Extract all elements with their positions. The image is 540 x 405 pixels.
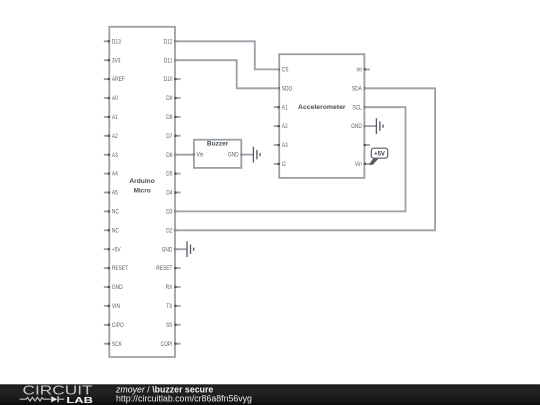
U1 pin D3 (right, connected) xyxy=(174,210,176,212)
U1 pin A2 (left) xyxy=(104,133,118,140)
svg-text:D8: D8 xyxy=(166,115,172,122)
svg-text:Vin: Vin xyxy=(355,162,362,169)
U2 pin SCL (right, connected) xyxy=(352,105,365,112)
U2 pin Vin (right) xyxy=(355,162,370,169)
U1 pin D9 (right) xyxy=(166,96,180,103)
svg-text:Int: Int xyxy=(356,67,362,74)
ground symbol (accelerometer GND) xyxy=(376,118,383,134)
U2 pin I2 (left) xyxy=(274,162,286,169)
svg-text:NC: NC xyxy=(112,228,119,235)
logo resistor zigzag and diode xyxy=(20,396,65,402)
svg-text:RESET: RESET xyxy=(112,266,129,273)
svg-text:I2: I2 xyxy=(282,162,286,169)
svg-text:SCK: SCK xyxy=(112,341,122,348)
svg-text:D12: D12 xyxy=(164,39,173,46)
U1 pin label D3 xyxy=(166,209,172,216)
U1 pin A0 (left) xyxy=(104,96,118,103)
svg-text:SS: SS xyxy=(166,322,173,329)
U1 pin RX (right) xyxy=(166,285,181,292)
U1 pin A1 (left) xyxy=(104,115,118,122)
U1 pin 3V3 (left) xyxy=(104,58,121,65)
svg-text:D5: D5 xyxy=(166,171,172,178)
svg-text:GND: GND xyxy=(112,285,123,292)
U1 pin D11 (right, connected) xyxy=(174,59,176,61)
IC U1 Arduino Micro body xyxy=(109,27,175,357)
svg-text:A5: A5 xyxy=(112,190,118,197)
svg-text:D6: D6 xyxy=(166,152,172,159)
U1 pin D4 (right) xyxy=(166,190,180,197)
footer author line "zmoyer / \buzzer secure" xyxy=(115,385,213,395)
U1 pin GND (right, connected) xyxy=(174,248,176,250)
ground symbol (buzzer) xyxy=(253,147,260,163)
svg-text:+5V: +5V xyxy=(112,247,121,254)
CircuitLab logo text CIRCUIT xyxy=(23,383,93,398)
svg-text:D11: D11 xyxy=(164,58,172,65)
svg-text:D2: D2 xyxy=(166,228,172,235)
svg-text:RX: RX xyxy=(166,285,173,292)
svg-text:CIPO: CIPO xyxy=(112,322,124,329)
U1 pin A4 (left) xyxy=(104,171,118,178)
wire U2.SCL to U1.D3 xyxy=(175,107,406,211)
wire BZ1.GND to ground xyxy=(241,154,253,156)
U1 pin D5 (right) xyxy=(166,171,180,178)
U1 pin D7 (right) xyxy=(166,133,180,140)
svg-text:TX: TX xyxy=(166,304,172,311)
svg-text:http://circuitlab.com/cr86a8fn: http://circuitlab.com/cr86a8fn56vyg xyxy=(116,393,252,403)
U1 pin CIPO (left) xyxy=(104,322,124,329)
ground symbol (arduino GND) xyxy=(187,241,194,257)
U1 pin SCK (left) xyxy=(104,341,122,348)
U1 pin GND (left) xyxy=(104,285,123,292)
svg-text:SCL: SCL xyxy=(352,105,361,112)
U1 pin label D11 xyxy=(164,58,172,65)
svg-text:D4: D4 xyxy=(166,190,172,197)
U1 pin NC (left) xyxy=(104,228,119,235)
svg-text:A1: A1 xyxy=(282,105,288,112)
U2 pin A2 (left) xyxy=(274,124,288,131)
U2 pin (unlabeled) (right) xyxy=(364,144,370,146)
svg-text:SDA: SDA xyxy=(352,86,362,93)
U1 pin VIN (left) xyxy=(104,304,120,311)
BZ1 pin Vin (left, connected) xyxy=(192,152,203,159)
U1 pin RESET (right) xyxy=(156,266,180,273)
U1 pin label D6 xyxy=(166,152,172,159)
svg-text:D10: D10 xyxy=(164,77,173,84)
U1 pin label D2 xyxy=(166,228,172,235)
U1 pin D12 (right, connected) xyxy=(174,40,176,42)
svg-text:CS: CS xyxy=(282,67,289,74)
U1 pin D6 (right, connected) xyxy=(174,154,176,156)
footer black bar xyxy=(0,384,540,405)
U1 pin NC (left) xyxy=(104,209,119,216)
svg-text:Vin: Vin xyxy=(197,152,204,159)
svg-text:Arduino: Arduino xyxy=(129,178,154,185)
svg-text:NC: NC xyxy=(112,209,119,216)
U2 pin SDA (right, connected) xyxy=(352,86,366,93)
U1 pin A5 (left) xyxy=(104,190,118,197)
svg-text:Accelerometer: Accelerometer xyxy=(298,104,346,111)
svg-text:A3: A3 xyxy=(112,152,118,159)
svg-text:D7: D7 xyxy=(166,133,172,140)
U1 pin D8 (right) xyxy=(166,115,180,122)
component BZ1 Buzzer body xyxy=(194,140,241,168)
svg-text:RESET: RESET xyxy=(156,266,173,273)
U1 pin TX (right) xyxy=(166,304,180,311)
U2 pin CS (left, connected) xyxy=(278,67,289,74)
svg-text:D9: D9 xyxy=(166,96,172,103)
U1 pin A3 (left) xyxy=(104,152,118,159)
svg-text:D13: D13 xyxy=(112,39,121,46)
U1 pin label GND xyxy=(162,247,173,254)
IC U2 Accelerometer body xyxy=(279,54,364,178)
+5V net flag at U2.Vin xyxy=(370,148,388,164)
svg-text:GND: GND xyxy=(351,124,362,131)
svg-text:A2: A2 xyxy=(282,124,288,131)
svg-text:A0: A0 xyxy=(112,96,118,103)
svg-text:D3: D3 xyxy=(166,209,172,216)
svg-text:COPI: COPI xyxy=(161,341,173,348)
svg-text:AREF: AREF xyxy=(112,77,125,84)
U1 pin RESET (left) xyxy=(104,266,129,273)
U1 pin label D12 xyxy=(164,39,173,46)
svg-text:A4: A4 xyxy=(112,171,118,178)
wire U2.GND to ground xyxy=(364,125,376,127)
svg-text:+5V: +5V xyxy=(374,152,385,158)
U2 pin Int (right) xyxy=(356,67,369,74)
footer url line xyxy=(116,393,252,403)
svg-text:A1: A1 xyxy=(112,115,118,122)
U1 pin COPI (right) xyxy=(161,341,181,348)
svg-text:Micro: Micro xyxy=(134,187,151,194)
U2 pin A3 (left) xyxy=(274,143,288,150)
wire U1.D12 to U2.CS xyxy=(175,41,279,69)
svg-text:Buzzer: Buzzer xyxy=(207,141,229,148)
U1 pin D10 (right) xyxy=(164,77,181,84)
U1 pin SS (right) xyxy=(166,322,181,329)
wire U1.GND (right) to ground xyxy=(175,248,187,250)
svg-text:3V3: 3V3 xyxy=(112,58,121,65)
wire U1.D6 to BZ1.Vin xyxy=(175,154,194,156)
U1 pin D2 (right, connected) xyxy=(174,229,176,231)
U2 pin SDO (left, connected) xyxy=(278,86,293,93)
wire U1.D11 to U2.SDO xyxy=(175,60,279,88)
svg-text:A3: A3 xyxy=(282,143,288,150)
svg-text:SDO: SDO xyxy=(282,86,293,93)
svg-text:GND: GND xyxy=(162,247,173,254)
BZ1 pin GND (right, connected) xyxy=(228,152,243,159)
svg-text:VIN: VIN xyxy=(112,304,120,311)
svg-text:GND: GND xyxy=(228,152,239,159)
U1 pin D13 (left) xyxy=(104,39,121,46)
svg-text:LAB: LAB xyxy=(66,395,93,405)
logo text LAB xyxy=(66,395,93,405)
U1 pin +5V (left) xyxy=(104,247,121,254)
U1 pin AREF (left) xyxy=(104,77,125,84)
U2 pin GND (right, connected) xyxy=(351,124,366,131)
wire U2.SDA to U1.D2 xyxy=(175,88,435,230)
svg-text:A2: A2 xyxy=(112,133,118,140)
U2 pin A1 (left) xyxy=(274,105,288,112)
